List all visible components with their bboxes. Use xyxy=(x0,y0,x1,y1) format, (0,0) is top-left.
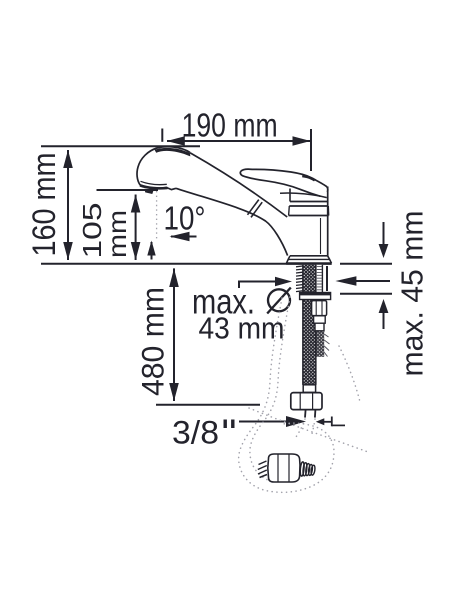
hose ferrule xyxy=(303,385,315,393)
svg-text:480 mm: 480 mm xyxy=(135,287,171,396)
base plinth top line xyxy=(290,255,328,257)
svg-text:160 mm: 160 mm xyxy=(26,153,62,257)
10 deg left arrowhead xyxy=(170,232,190,242)
dim 45 shank extension tick xyxy=(326,266,328,291)
body neck left edge xyxy=(289,189,291,202)
dim 105 mm top extension line xyxy=(97,189,159,191)
dotted hose inner line xyxy=(250,297,290,482)
10 deg left arrow line xyxy=(171,236,197,238)
deck line right segment xyxy=(340,263,392,265)
hose weight right spring xyxy=(300,462,305,477)
dim 190 mm left arrowhead xyxy=(167,136,185,145)
spout tube upper edge xyxy=(190,153,287,217)
spray head outline xyxy=(137,147,190,190)
hose stub end short line xyxy=(332,424,345,426)
dotted hose stub continuation xyxy=(296,419,315,437)
svg-text:mm: mm xyxy=(102,210,132,258)
dotted hose diagonal xyxy=(249,408,368,452)
3/8 hex nut xyxy=(291,393,322,410)
spray head dark bottom edge xyxy=(140,185,168,188)
mounting nut xyxy=(312,301,327,316)
dim 105 mm down arrowhead xyxy=(131,242,141,260)
dim 45 lower extension line xyxy=(340,293,392,295)
spout tube lower edge xyxy=(176,188,288,255)
base plinth right side xyxy=(328,256,332,263)
dim 190 mm left tick xyxy=(161,129,163,142)
base plinth mid line xyxy=(288,258,329,260)
dim 45 lower arrow stem xyxy=(383,312,385,329)
svg-text:43 mm: 43 mm xyxy=(199,311,285,346)
dim 105 mm dimension line xyxy=(135,195,137,261)
body collar left edge xyxy=(288,206,291,216)
label 3/8 inch tick 2 xyxy=(231,420,234,429)
svg-text:max. 45 mm: max. 45 mm xyxy=(395,211,430,377)
3/8 leader line xyxy=(239,421,288,423)
dim 190 mm right extension line xyxy=(310,129,312,171)
shank tube right xyxy=(316,265,322,293)
spray head top dark crescent xyxy=(155,148,191,157)
shank thread ridges left xyxy=(296,266,303,292)
diameter symbol slash xyxy=(267,288,291,314)
hose weight barrel xyxy=(268,454,300,482)
3/8 leader right arrowhead xyxy=(286,416,306,427)
dim 45 upper arrow stem xyxy=(383,222,385,245)
hose adapter below nut xyxy=(314,316,326,323)
dim 45 down arrowhead xyxy=(379,244,389,258)
10 deg small up arrowhead xyxy=(147,241,155,256)
body collar line mid xyxy=(289,205,328,207)
max diameter leader arrowhead xyxy=(275,277,292,287)
max diameter leader line xyxy=(239,282,277,289)
dim 160 mm down arrowhead xyxy=(63,242,73,260)
dim 160 mm top extension line xyxy=(41,145,200,147)
dim 190 mm right arrowhead xyxy=(293,136,311,145)
body collar line bottom xyxy=(289,215,329,217)
cartridge dome curve xyxy=(280,193,327,198)
deck line left segment xyxy=(41,263,287,265)
spray head aerator nub xyxy=(145,189,154,194)
dim 45 left arrowhead xyxy=(335,276,356,286)
hose stub end tick xyxy=(331,417,333,427)
dim 105 mm up arrowhead xyxy=(131,195,141,213)
mounting washer xyxy=(300,293,331,300)
dim 45 up arrowhead xyxy=(379,299,389,313)
svg-text:10°: 10° xyxy=(164,200,206,237)
diameter symbol circle xyxy=(268,289,290,311)
label 3/8 inch tick 1 xyxy=(223,420,226,429)
svg-text:3/8: 3/8 xyxy=(172,415,219,451)
10 deg small up arrow stem xyxy=(151,242,153,260)
svg-text:190 mm: 190 mm xyxy=(182,107,278,144)
spout swivel ring 2 xyxy=(251,202,262,217)
base plinth dark bottom line xyxy=(286,262,331,265)
body collar right edge xyxy=(327,206,329,216)
dim 45 left arrow tail xyxy=(354,280,390,282)
hose end stub lines xyxy=(304,410,307,418)
dim 160 mm dimension line xyxy=(67,150,69,260)
dim 480 mm down arrowhead xyxy=(169,383,179,401)
body inner shading line xyxy=(320,218,322,254)
dim 480 mm up arrowhead xyxy=(169,268,179,287)
spout swivel ring 1 xyxy=(248,200,259,215)
hose stub left arrowhead xyxy=(316,418,325,425)
lever handle outline xyxy=(240,169,327,196)
dim 160 mm up arrowhead xyxy=(63,150,73,168)
hose weight left spring xyxy=(258,461,267,478)
dim 480 mm dimension line xyxy=(173,268,175,401)
spray head aerator seam xyxy=(141,181,167,184)
base plinth left side xyxy=(286,256,290,263)
body right edge xyxy=(327,187,329,256)
second braided hose stub xyxy=(315,331,324,357)
braided supply hose (central) xyxy=(303,265,316,385)
dotted hose right curve xyxy=(339,346,360,402)
dotted hose outer loop xyxy=(239,298,334,492)
dim 480 mm bottom extension line xyxy=(156,404,260,406)
lever handle dark smudge xyxy=(302,175,316,181)
dim 190 mm dimension line xyxy=(167,140,311,142)
hose stub arrow tail xyxy=(324,421,332,423)
10 deg dotted axis line xyxy=(156,191,158,241)
body collar line top xyxy=(290,201,328,203)
